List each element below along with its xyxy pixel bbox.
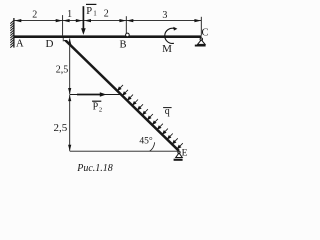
- label P1 (with overbar): [86, 3, 96, 5]
- svg-text:2,5: 2,5: [53, 122, 67, 134]
- force P2 (horizontal arrow): [77, 94, 101, 96]
- dimension tick at B: [125, 16, 127, 33]
- dimension tick at D: [62, 15, 64, 35]
- wall support at A (fixed wall with hatching): [10, 18, 14, 48]
- extension line at C: [200, 17, 202, 36]
- roller support at E: [178, 151, 180, 153]
- label q (with overbar): [163, 107, 172, 109]
- hinge circle at B: [126, 33, 130, 37]
- joint notch at D: [62, 38, 64, 42]
- svg-text:P: P: [86, 6, 92, 17]
- svg-text:E: E: [182, 149, 188, 159]
- beam A-C (horizontal member): [14, 35, 202, 38]
- svg-text:1: 1: [67, 9, 72, 20]
- svg-text:2: 2: [99, 107, 102, 114]
- moment M arc arrow: [165, 28, 175, 43]
- vertical dimension line (2,5 / 2,5): [69, 38, 71, 94]
- svg-text:2: 2: [104, 8, 109, 19]
- svg-text:q: q: [165, 106, 170, 117]
- svg-text:M: M: [162, 43, 172, 55]
- svg-text:2,5: 2,5: [56, 64, 69, 75]
- mid horizontal line to bar: [70, 94, 121, 96]
- svg-text:2: 2: [32, 10, 37, 21]
- force P1 (vertical arrow onto beam): [82, 6, 84, 29]
- angle arc at E: [150, 142, 155, 151]
- roller support at C: [200, 38, 203, 41]
- svg-text:P: P: [93, 102, 99, 113]
- dimension arrowheads (top line): [15, 19, 202, 22]
- svg-text:1: 1: [93, 9, 97, 17]
- svg-text:B: B: [119, 39, 126, 50]
- svg-text:3: 3: [162, 10, 167, 21]
- svg-text:C: C: [201, 27, 208, 38]
- bottom reference line: [70, 150, 179, 152]
- svg-text:D: D: [46, 38, 54, 50]
- diagonal bar D-E: [63, 40, 180, 152]
- svg-text:Рис.1.18: Рис.1.18: [76, 163, 113, 174]
- svg-text:45°: 45°: [139, 136, 153, 147]
- distributed load q arrows on lower half of bar: [118, 85, 183, 149]
- dimension line (top): [14, 20, 201, 22]
- label P2 (with overbar): [92, 100, 101, 102]
- svg-text:A: A: [16, 38, 24, 49]
